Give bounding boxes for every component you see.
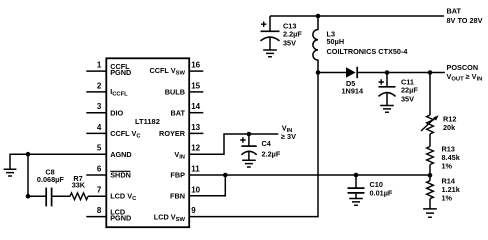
svg-text:PGND: PGND [110, 68, 131, 77]
svg-text:COILTRONICS CTX50-4: COILTRONICS CTX50-4 [327, 47, 409, 56]
svg-text:AGND: AGND [110, 150, 132, 159]
svg-text:POSCON: POSCON [447, 63, 479, 72]
svg-text:FBN: FBN [170, 191, 185, 200]
resistor R14 1.21k [427, 177, 461, 203]
svg-text:1: 1 [97, 61, 102, 70]
capacitor C10 [348, 175, 393, 198]
ground (C11) [380, 106, 394, 113]
wire: R14 to ground [429, 199, 431, 209]
svg-text:PGND: PGND [110, 214, 131, 223]
svg-text:C10: C10 [370, 180, 383, 189]
ground (C10) [349, 199, 363, 206]
pin 3 (DIO) [86, 102, 123, 117]
wire: output line to POSCON [387, 72, 445, 74]
node: L3-D5-switch junction [316, 70, 321, 75]
resistor R12 (adjustable) 20k [421, 115, 456, 135]
wire: C8 to R7 [52, 195, 70, 197]
svg-text:6: 6 [97, 165, 102, 174]
pin 2 (ICCFL) [86, 81, 128, 97]
node: comp junction lower [26, 194, 31, 199]
svg-text:2.2µF: 2.2µF [262, 150, 281, 159]
pin 5 (AGND) [86, 144, 131, 159]
node: C10 junction [354, 173, 359, 178]
diode D5 [318, 67, 387, 96]
pin 15 (BULB) [165, 81, 204, 96]
IC U1 LT1182 body [106, 58, 189, 227]
wire: comp to C8 [28, 195, 46, 197]
wire: FBP line [189, 174, 430, 176]
svg-text:15: 15 [191, 81, 200, 90]
pin 16 (CCFL VSW) [149, 61, 203, 77]
svg-text:33K: 33K [72, 180, 86, 189]
svg-text:10: 10 [191, 185, 200, 194]
svg-text:ROYER: ROYER [159, 129, 186, 138]
resistor R13 8.45k [427, 145, 461, 171]
svg-text:22µF: 22µF [401, 85, 418, 94]
svg-text:16: 16 [191, 61, 200, 70]
pin 8 (LCD PGND) [86, 206, 131, 223]
svg-text:BULB: BULB [165, 88, 185, 97]
svg-text:11: 11 [191, 165, 200, 174]
capacitor C13 [261, 16, 303, 50]
svg-text:35V: 35V [283, 39, 296, 48]
svg-text:SHDN: SHDN [110, 171, 131, 180]
svg-text:12: 12 [191, 144, 200, 153]
svg-text:BAT: BAT [447, 6, 462, 15]
pin 4 (CCFL VC) [86, 123, 141, 140]
pin 9 (LCD VSW) [154, 206, 196, 223]
svg-text:VOUT ≥ VIN: VOUT ≥ VIN [447, 72, 483, 83]
resistor R7 33K [70, 174, 88, 200]
svg-text:7: 7 [97, 185, 102, 194]
svg-text:20k: 20k [443, 123, 456, 132]
pin 12 (VIN) [174, 144, 200, 161]
svg-text:13: 13 [191, 123, 200, 132]
svg-text:BAT: BAT [171, 108, 186, 117]
svg-text:9: 9 [191, 206, 196, 215]
wire: comp vertical [27, 154, 29, 196]
svg-text:FBP: FBP [170, 171, 185, 180]
label: POSCON output [447, 63, 483, 82]
label: BAT 8V TO 28V [447, 6, 483, 25]
capacitor C11 [379, 70, 419, 105]
svg-text:C4: C4 [262, 139, 272, 148]
capacitor C4 [240, 134, 281, 160]
svg-text:8: 8 [97, 206, 102, 215]
svg-text:0.01µF: 0.01µF [370, 189, 393, 198]
node: FB node (R13/R14) [428, 173, 433, 178]
pin 14 (BAT) [171, 102, 204, 117]
svg-text:14: 14 [191, 102, 200, 111]
pin 10 (FBN) [170, 185, 201, 200]
wire: switch node vertical to pin 9 [189, 73, 318, 217]
ground (C4) [242, 160, 256, 167]
svg-text:50µH: 50µH [327, 37, 345, 46]
svg-text:4: 4 [97, 123, 102, 132]
wire: FBN to FBP [189, 175, 225, 196]
pin 11 (FBP) [170, 165, 200, 180]
node: FBP-FBN junction [223, 173, 228, 178]
pin 7 (LCD VC) [97, 185, 137, 202]
svg-text:1%: 1% [442, 162, 453, 171]
svg-text:3: 3 [97, 102, 102, 111]
svg-text:DIO: DIO [110, 108, 123, 117]
ground (C13) [263, 50, 277, 57]
wire: AGND to ground [10, 154, 106, 169]
inductor L3 [313, 16, 408, 73]
node: VIN-C4 junction [247, 132, 252, 137]
svg-text:1N914: 1N914 [342, 87, 364, 96]
svg-text:2.2µF: 2.2µF [283, 30, 302, 39]
node: comp junction upper [26, 152, 31, 157]
pin 1 (CCFL PGND) [86, 61, 131, 78]
ground (AGND) [4, 169, 17, 176]
svg-text:1%: 1% [442, 194, 453, 203]
wire: R13 to R14 [429, 165, 431, 181]
node: BAT-L3 junction [316, 14, 321, 19]
capacitor C8 0.068uF [37, 167, 64, 206]
wire: POSCON to R12 [429, 73, 431, 116]
wire: BAT rail [270, 15, 444, 17]
wire: VIN from pin 12 [189, 134, 278, 154]
wire: R7 to pin 7 [88, 195, 106, 197]
svg-text:2: 2 [97, 81, 102, 90]
node: POSCON junction [428, 70, 433, 75]
svg-text:≥ 3V: ≥ 3V [281, 132, 296, 141]
svg-text:5: 5 [97, 144, 102, 153]
ground (R14) [423, 209, 437, 217]
svg-text:35V: 35V [401, 94, 414, 103]
pin 13 (ROYER) [159, 123, 203, 138]
svg-text:LT1182: LT1182 [135, 117, 160, 126]
pin 6 (SHDN) [86, 165, 131, 180]
svg-text:0.068µF: 0.068µF [37, 175, 64, 184]
wire: R12 to R13 [429, 134, 431, 147]
svg-text:8V TO 28V: 8V TO 28V [447, 16, 483, 25]
label: VIN >= 3V [281, 123, 296, 141]
